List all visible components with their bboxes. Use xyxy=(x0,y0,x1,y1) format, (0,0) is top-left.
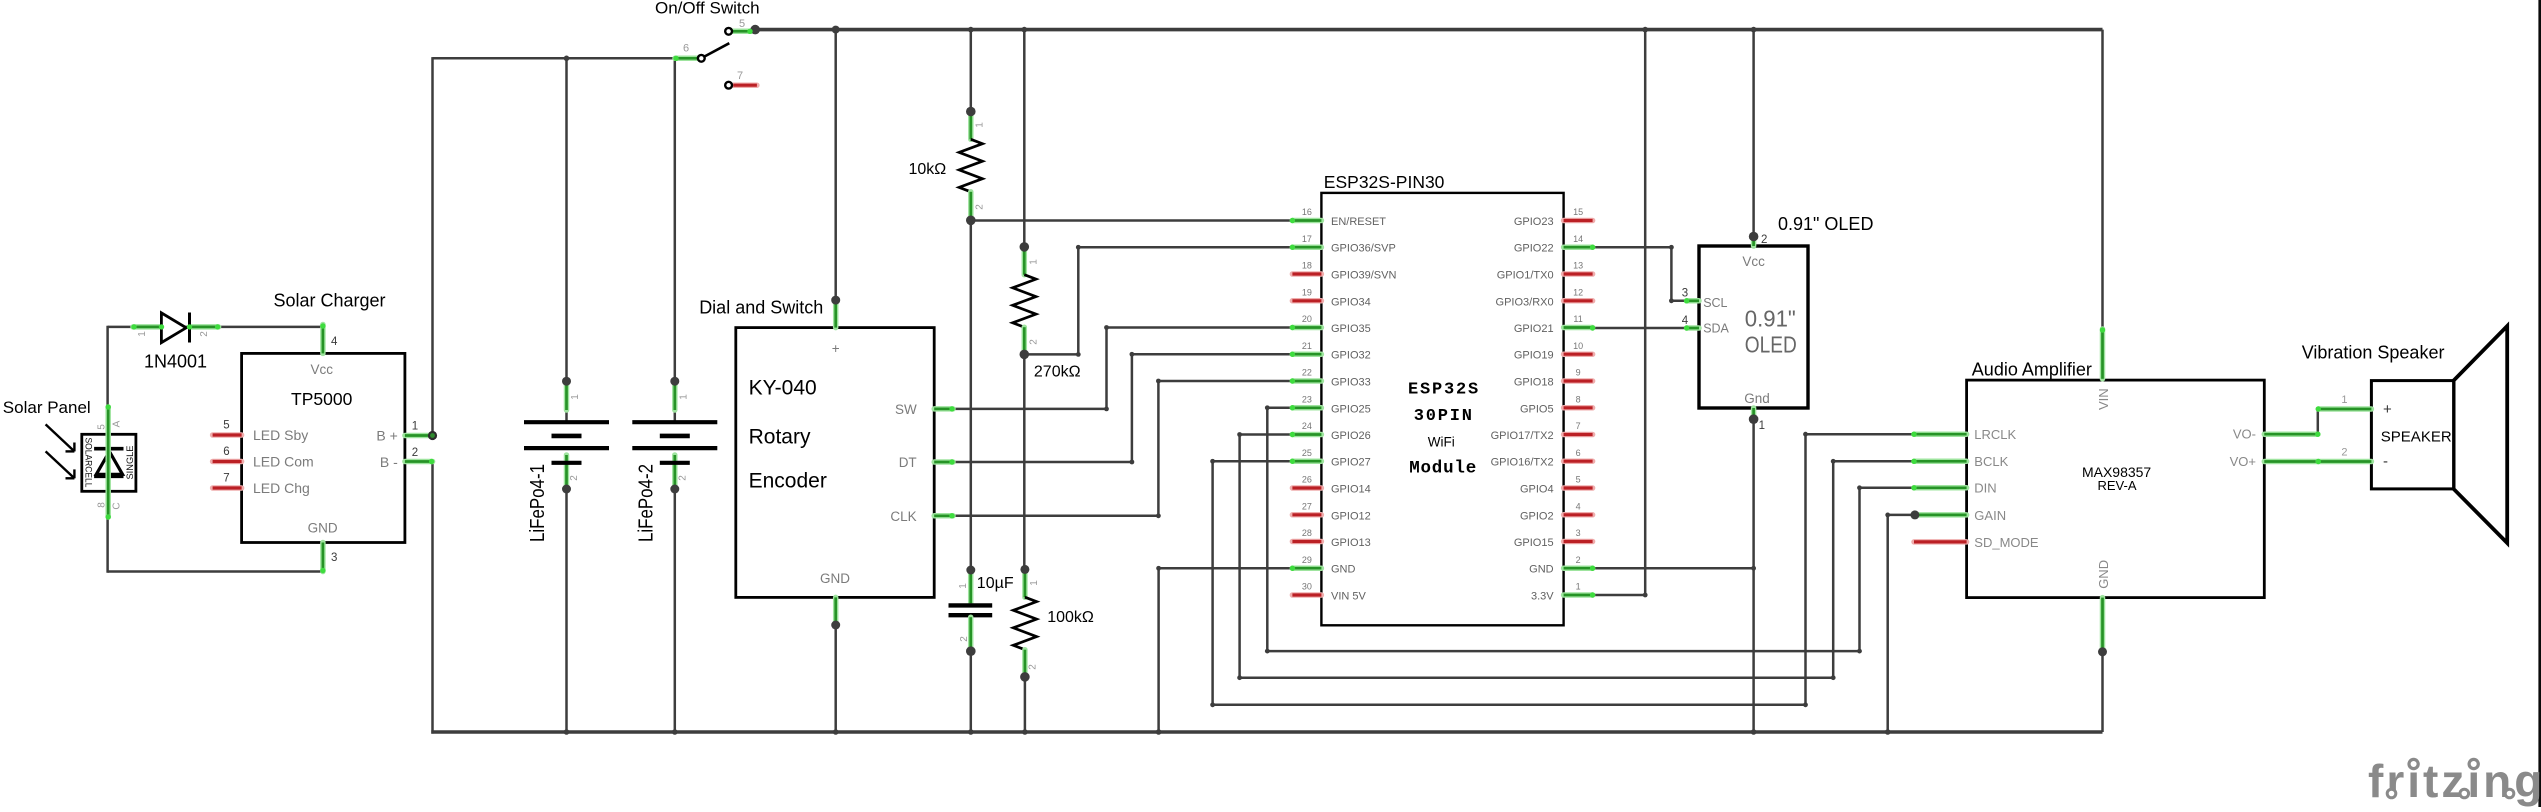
wire R 100k to bus xyxy=(1024,677,1027,734)
switch S1 pin5 terminal xyxy=(725,28,732,35)
svg-text:VO+: VO+ xyxy=(2230,454,2256,469)
ESP32 pin 3 stub xyxy=(1564,539,1593,545)
svg-text:1: 1 xyxy=(2341,394,2347,406)
TP5000 pin7 stub xyxy=(213,485,242,491)
wire bend xyxy=(1076,245,1081,250)
bus junction xyxy=(1156,729,1162,735)
svg-text:25: 25 xyxy=(1302,448,1312,458)
svg-text:Rotary: Rotary xyxy=(749,426,811,449)
wire bend xyxy=(1669,245,1674,250)
svg-text:100kΩ: 100kΩ xyxy=(1047,609,1094,626)
svg-text:27: 27 xyxy=(1302,502,1312,512)
solar cell pin stub xyxy=(105,407,111,517)
capacitor C1 pin1 stub xyxy=(968,570,974,603)
ESP32 pin 17 stub xyxy=(1292,244,1321,250)
svg-text:23: 23 xyxy=(1302,395,1312,405)
module ESP32S-PIN30 body xyxy=(1321,193,1563,625)
module OLED body xyxy=(1699,246,1808,408)
wire VO+ to speaker pin2 xyxy=(2318,460,2350,463)
svg-text:Audio Amplifier: Audio Amplifier xyxy=(1972,359,2092,379)
bus junction xyxy=(1885,729,1891,735)
svg-text:LED Chg: LED Chg xyxy=(253,480,310,496)
node R 10k pin2 xyxy=(966,216,976,226)
svg-text:7: 7 xyxy=(223,473,229,485)
wire CLK to GPIO33 xyxy=(953,381,1292,516)
svg-text:16: 16 xyxy=(1302,207,1312,217)
amp pin BCLK stub xyxy=(1914,459,1967,465)
ESP32 pin 23 stub xyxy=(1292,405,1321,411)
svg-text:1: 1 xyxy=(1576,582,1581,592)
svg-text:GPIO26: GPIO26 xyxy=(1331,430,1371,442)
switch S1 pin5 stub xyxy=(733,29,751,35)
svg-text:2: 2 xyxy=(199,331,210,337)
svg-text:10kΩ: 10kΩ xyxy=(909,161,947,178)
svg-text:VIN 5V: VIN 5V xyxy=(1331,591,1367,603)
svg-text:17: 17 xyxy=(1302,234,1312,244)
wire ESP32 GND pin29 to bus xyxy=(1159,568,1293,733)
svg-text:SW: SW xyxy=(895,402,917,417)
battery LiFePo4-1 pin stubs xyxy=(564,381,570,410)
svg-text:OLED: OLED xyxy=(1745,332,1797,358)
svg-text:GND: GND xyxy=(820,571,850,586)
svg-text:7: 7 xyxy=(1576,421,1581,431)
wire solar panel cathode to TP5000 GND pin3 xyxy=(108,570,323,573)
wire ESP32 GND pin2 to OLED gnd net xyxy=(1593,567,1754,570)
svg-text:GPIO39/SVN: GPIO39/SVN xyxy=(1331,270,1396,282)
wire 3.3V to top bus xyxy=(1593,30,1646,595)
svg-text:29: 29 xyxy=(1302,555,1312,565)
node C 10uF pin1 xyxy=(966,566,975,575)
svg-text:1: 1 xyxy=(678,394,689,400)
svg-text:2: 2 xyxy=(677,475,688,481)
battery LiFePo4-2 xyxy=(632,420,717,424)
svg-text:8: 8 xyxy=(97,502,108,508)
OLED pin4 SDA stub xyxy=(1687,325,1699,331)
node battery2 pin2 xyxy=(670,485,679,494)
svg-text:+: + xyxy=(832,341,840,356)
svg-text:Vibration Speaker: Vibration Speaker xyxy=(2302,342,2445,362)
node C 10uF pin2 xyxy=(966,646,976,656)
resistor R1 10k body xyxy=(959,139,982,192)
diode D1 cathode bar xyxy=(188,313,191,343)
TP5000 pin5 stub xyxy=(213,432,242,438)
svg-text:GPIO15: GPIO15 xyxy=(1514,537,1554,549)
svg-text:6: 6 xyxy=(223,446,229,458)
wire battery2 top lead xyxy=(674,381,677,421)
svg-text:GPIO36/SVP: GPIO36/SVP xyxy=(1331,243,1396,255)
node R 100k pin2 xyxy=(1020,672,1030,682)
svg-text:On/Off Switch: On/Off Switch xyxy=(655,0,760,18)
node amp GND pin xyxy=(2098,647,2107,656)
svg-text:30: 30 xyxy=(1302,582,1312,592)
svg-text:5: 5 xyxy=(223,420,229,432)
svg-text:19: 19 xyxy=(1302,288,1312,298)
wire C 10uF to bus xyxy=(970,651,973,732)
wire GPIO25 to DIN xyxy=(1267,408,1914,651)
wire R 270k to R 100k xyxy=(1023,354,1026,569)
node battery1 pin2 xyxy=(562,485,571,494)
R1 10k pin1 stub xyxy=(968,112,974,140)
wire bend xyxy=(1156,513,1161,518)
bus junction xyxy=(672,729,678,735)
svg-text:28: 28 xyxy=(1302,528,1312,538)
switch S1 pin6 terminal xyxy=(698,55,705,62)
wire bend xyxy=(1265,405,1270,410)
wire bus to R 270k xyxy=(1023,30,1026,247)
speaker body xyxy=(2371,381,2453,489)
svg-text:GPIO25: GPIO25 xyxy=(1331,403,1371,415)
wire bend xyxy=(1669,298,1674,303)
ESP32 pin 27 stub xyxy=(1292,512,1321,518)
svg-text:GPIO35: GPIO35 xyxy=(1331,323,1371,335)
ESP32 pin 8 stub xyxy=(1564,405,1593,411)
node R 100k pin1 xyxy=(1020,565,1029,574)
speaker horn xyxy=(2454,326,2508,543)
svg-text:Solar Charger: Solar Charger xyxy=(274,291,386,311)
amp pin VO+ stub xyxy=(2264,459,2318,465)
ESP32 pin 16 stub xyxy=(1292,218,1321,224)
wire battery1 positive xyxy=(565,58,568,381)
svg-text:SPEAKER: SPEAKER xyxy=(2381,429,2452,446)
svg-text:Solar Panel: Solar Panel xyxy=(3,398,91,417)
node switch pin5 on bus xyxy=(750,25,760,35)
wire bend xyxy=(1104,407,1109,412)
ESP32 pin 21 stub xyxy=(1292,351,1321,357)
ESP32 pin 24 stub xyxy=(1292,432,1321,438)
TP5000 pin3 stub GND xyxy=(320,543,326,572)
svg-text:SINGLE: SINGLE xyxy=(125,446,136,480)
node KY+ pin xyxy=(831,296,840,305)
svg-text:LiFePo4-1: LiFePo4-1 xyxy=(527,464,549,542)
ESP32 pin 6 stub xyxy=(1564,458,1593,464)
wire bend xyxy=(1265,649,1270,654)
fritzing logo node rings xyxy=(2387,789,2396,798)
svg-text:BCLK: BCLK xyxy=(1974,454,2008,469)
KY-040 GND stub xyxy=(833,597,839,625)
capacitor C1 plates xyxy=(949,603,993,607)
wire bend xyxy=(1237,432,1242,437)
svg-text:SDA: SDA xyxy=(1703,321,1729,335)
ESP32 pin 5 stub xyxy=(1564,485,1593,491)
bus junction xyxy=(1022,27,1028,33)
amp pin DIN stub xyxy=(1914,485,1967,491)
TP5000 pin6 stub xyxy=(213,459,242,465)
R2 270k pin2 stub xyxy=(1022,327,1028,354)
node R 10k pin1 xyxy=(966,107,976,117)
wire bend xyxy=(1237,675,1242,680)
wire bend xyxy=(1156,566,1161,571)
wire bend xyxy=(1104,325,1109,330)
bus junction xyxy=(1751,729,1757,735)
bus junction xyxy=(564,56,570,62)
wire battery1 negative to bus xyxy=(565,489,568,732)
svg-text:6: 6 xyxy=(1576,448,1581,458)
ESP32 pin 25 stub xyxy=(1292,458,1321,464)
wire bottom ground bus xyxy=(431,730,2102,734)
svg-text:1: 1 xyxy=(975,122,986,128)
bus junction xyxy=(1642,27,1648,33)
ESP32 pin 2 stub xyxy=(1564,565,1593,571)
R3 100k pin1 stub xyxy=(1022,569,1028,597)
svg-text:2: 2 xyxy=(1576,555,1581,565)
svg-text:SOLARCELL: SOLARCELL xyxy=(83,438,94,488)
svg-text:LED Sby: LED Sby xyxy=(253,427,308,443)
svg-text:22: 22 xyxy=(1302,368,1312,378)
svg-text:26: 26 xyxy=(1302,475,1312,485)
svg-text:270kΩ: 270kΩ xyxy=(1034,363,1081,380)
KY-040 CLK stub xyxy=(934,513,953,519)
IC TP5000 body xyxy=(242,353,405,542)
ESP32 pin 1 stub xyxy=(1564,592,1593,598)
svg-text:GPIO3/RX0: GPIO3/RX0 xyxy=(1496,296,1554,308)
wire VO- up to speaker + xyxy=(2317,409,2320,434)
svg-text:6: 6 xyxy=(683,43,689,55)
wire bend xyxy=(1130,460,1135,465)
svg-text:4: 4 xyxy=(1576,502,1581,512)
switch S1 lever xyxy=(705,43,730,56)
svg-text:SD_MODE: SD_MODE xyxy=(1974,535,2039,550)
svg-text:30PIN: 30PIN xyxy=(1414,407,1474,426)
wire KY-040 plus drop xyxy=(834,30,837,301)
solar panel arrow 2 xyxy=(46,451,75,478)
svg-text:3.3V: 3.3V xyxy=(1531,591,1554,603)
wire top power bus xyxy=(755,28,2102,32)
svg-text:8: 8 xyxy=(1576,395,1581,405)
svg-text:GPIO21: GPIO21 xyxy=(1514,323,1554,335)
node battery1 pin1 xyxy=(562,377,571,386)
svg-text:1: 1 xyxy=(958,583,969,589)
bus junction xyxy=(833,729,839,735)
svg-text:1N4001: 1N4001 xyxy=(144,351,207,371)
amp pin VIN stub xyxy=(2100,329,2106,379)
svg-text:GND: GND xyxy=(308,521,338,536)
svg-text:DT: DT xyxy=(899,455,917,470)
solar cell internal diode xyxy=(94,447,123,451)
svg-text:GPIO33: GPIO33 xyxy=(1331,377,1371,389)
speaker pin1 stub xyxy=(2318,406,2371,412)
ESP32 pin 30 stub xyxy=(1292,592,1321,598)
ESP32 pin 19 stub xyxy=(1292,298,1321,304)
svg-text:24: 24 xyxy=(1302,421,1312,431)
amp pin VO- stub xyxy=(2264,431,2318,437)
svg-text:LiFePo4-2: LiFePo4-2 xyxy=(636,464,658,542)
wire battery2 bottom lead xyxy=(674,463,677,489)
switch S1 pin6 stub xyxy=(675,56,698,62)
node R 270k pin1 xyxy=(1020,242,1030,252)
wire OLED Gnd to ground bus xyxy=(1752,419,1755,733)
svg-text:2: 2 xyxy=(1761,234,1767,246)
R3 100k pin2 stub xyxy=(1022,650,1028,677)
pin end glows xyxy=(673,56,678,61)
svg-text:GPIO32: GPIO32 xyxy=(1331,350,1371,362)
ESP32 pin 13 stub xyxy=(1564,271,1593,277)
svg-text:GPIO2: GPIO2 xyxy=(1520,510,1554,522)
resistor R2 270k body xyxy=(1013,275,1036,328)
diode D1 stub right xyxy=(190,324,219,330)
screenshot right border bar xyxy=(2538,0,2541,807)
svg-text:TP5000: TP5000 xyxy=(291,389,353,409)
svg-text:KY-040: KY-040 xyxy=(749,376,817,399)
wire GPIO21 to SDA xyxy=(1593,327,1687,330)
wire bend xyxy=(1831,675,1836,680)
OLED pin2 Vcc stub xyxy=(1751,238,1757,247)
svg-text:LRCLK: LRCLK xyxy=(1974,427,2016,442)
solar cell body xyxy=(82,434,136,491)
wire bend xyxy=(1885,513,1890,518)
wire DT to GPIO32 xyxy=(953,354,1292,462)
wire solar panel left vertical xyxy=(106,326,109,573)
svg-text:ESP32S: ESP32S xyxy=(1408,381,1480,400)
svg-text:GPIO16/TX2: GPIO16/TX2 xyxy=(1491,457,1554,469)
ESP32 pin 18 stub xyxy=(1292,271,1321,277)
svg-text:Dial and Switch: Dial and Switch xyxy=(699,298,823,318)
node GAIN pin xyxy=(1910,510,1919,519)
svg-text:1: 1 xyxy=(412,421,418,433)
ESP32 pin 28 stub xyxy=(1292,539,1321,545)
wire bend xyxy=(1076,352,1081,357)
KY-040 SW stub xyxy=(934,406,953,412)
R2 270k pin1 stub xyxy=(1022,247,1028,275)
bus junction xyxy=(968,27,974,33)
ESP32 pin 7 stub xyxy=(1564,432,1593,438)
svg-text:-: - xyxy=(2383,453,2388,470)
node battery2 pin1 xyxy=(670,377,679,386)
module MAX98357 body xyxy=(1967,380,2265,597)
bus junction xyxy=(1751,27,1757,33)
wire SW to GPIO35 xyxy=(953,328,1292,409)
diode D1 triangle xyxy=(161,313,186,343)
svg-text:10µF: 10µF xyxy=(977,575,1014,592)
wire battery1 top lead xyxy=(565,381,568,421)
svg-text:GND: GND xyxy=(1331,564,1356,576)
svg-text:Module: Module xyxy=(1409,459,1477,479)
wire GPIO27 to LRCLK xyxy=(1213,434,1914,705)
svg-text:GPIO5: GPIO5 xyxy=(1520,403,1554,415)
svg-text:WiFi: WiFi xyxy=(1428,434,1455,449)
svg-text:GPIO13: GPIO13 xyxy=(1331,537,1371,549)
wire solar panel anode to TP5000 Vcc xyxy=(108,326,323,329)
wire GPIO22 to SCL xyxy=(1593,247,1687,301)
ESP32 pin 11 stub xyxy=(1564,325,1593,331)
bus junction xyxy=(968,729,974,735)
svg-text:2: 2 xyxy=(975,204,986,210)
ESP32 pin 14 stub xyxy=(1564,244,1593,250)
svg-text:2: 2 xyxy=(412,447,418,459)
svg-text:Gnd: Gnd xyxy=(1744,391,1770,406)
svg-text:VIN: VIN xyxy=(2096,388,2111,410)
wire bend xyxy=(1210,702,1215,707)
svg-text:GPIO34: GPIO34 xyxy=(1331,296,1371,308)
svg-text:18: 18 xyxy=(1302,261,1312,271)
switch S1 pin7 terminal xyxy=(725,82,732,89)
svg-text:GPIO19: GPIO19 xyxy=(1514,350,1554,362)
bus junction xyxy=(1022,729,1028,735)
svg-text:EN/RESET: EN/RESET xyxy=(1331,216,1386,228)
OLED pin3 SCL stub xyxy=(1687,298,1699,304)
svg-text:GND: GND xyxy=(2096,560,2111,589)
svg-text:fritzing: fritzing xyxy=(2368,755,2541,807)
svg-text:GPIO12: GPIO12 xyxy=(1331,510,1371,522)
svg-text:9: 9 xyxy=(1576,368,1581,378)
amp pin GAIN stub xyxy=(1914,512,1967,518)
amp pin GND stub xyxy=(2100,598,2106,651)
R1 10k pin2 stub xyxy=(968,192,974,219)
svg-text:GPIO23: GPIO23 xyxy=(1514,216,1554,228)
svg-text:REV-A: REV-A xyxy=(2097,478,2136,493)
svg-text:11: 11 xyxy=(1573,314,1582,324)
wire bend xyxy=(1643,593,1648,598)
wire bus to R 10k xyxy=(970,30,973,112)
ESP32 pin 4 stub xyxy=(1564,512,1593,518)
ESP32 pin 12 stub xyxy=(1564,298,1593,304)
wire KY-040 GND to bus xyxy=(834,625,837,732)
wire battery2 negative to bus xyxy=(674,489,677,732)
svg-text:15: 15 xyxy=(1573,207,1583,217)
svg-text:ESP32S-PIN30: ESP32S-PIN30 xyxy=(1324,172,1445,192)
wire switch pin6 horizontal xyxy=(433,57,677,60)
svg-text:+: + xyxy=(2383,401,2392,418)
svg-text:2: 2 xyxy=(569,475,580,481)
svg-text:GPIO17/TX2: GPIO17/TX2 xyxy=(1491,430,1554,442)
svg-text:GPIO14: GPIO14 xyxy=(1331,484,1371,496)
svg-text:13: 13 xyxy=(1573,261,1583,271)
svg-text:0.91": 0.91" xyxy=(1745,305,1796,331)
svg-text:1: 1 xyxy=(1029,580,1040,586)
wire GAIN to ground bus xyxy=(1888,515,1915,734)
svg-text:2: 2 xyxy=(2341,447,2347,459)
capacitor C1 pin2 stub xyxy=(968,617,974,651)
wire battery2 positive xyxy=(674,58,677,381)
ESP32 pin 29 stub xyxy=(1292,565,1321,571)
wire GPIO26 to BCLK xyxy=(1240,435,1914,678)
wire VIN drop to audio amplifier xyxy=(2101,30,2104,329)
svg-text:B -: B - xyxy=(380,454,398,470)
svg-text:SCL: SCL xyxy=(1703,296,1727,310)
KY-040 DT stub xyxy=(934,459,953,465)
node OLED Vcc pin xyxy=(1749,232,1759,242)
wire amp GND to bus xyxy=(2101,652,2104,732)
svg-text:2: 2 xyxy=(959,636,970,642)
svg-text:GPIO18: GPIO18 xyxy=(1514,377,1554,389)
speaker pin2 stub xyxy=(2318,459,2371,465)
wire bend xyxy=(1857,485,1862,490)
OLED pin1 Gnd stub xyxy=(1751,408,1757,418)
wire bend xyxy=(1210,459,1215,464)
svg-text:DIN: DIN xyxy=(1974,481,1996,496)
wire B- vertical to ground bus xyxy=(431,462,434,734)
switch S1 pin7 stub xyxy=(733,82,757,88)
svg-text:Encoder: Encoder xyxy=(749,470,827,493)
wire battery1 bottom lead xyxy=(565,463,568,489)
svg-text:C: C xyxy=(112,502,123,509)
svg-text:10: 10 xyxy=(1573,341,1583,351)
svg-text:12: 12 xyxy=(1573,288,1583,298)
svg-text:5: 5 xyxy=(739,18,745,30)
wire bend xyxy=(1751,566,1756,571)
svg-text:LED Com: LED Com xyxy=(253,454,314,470)
amp pin LRCLK stub xyxy=(1914,431,1967,437)
svg-text:CLK: CLK xyxy=(890,509,916,524)
svg-text:Vcc: Vcc xyxy=(310,362,333,377)
svg-text:2: 2 xyxy=(1028,664,1039,670)
node B+ junction xyxy=(428,431,437,440)
svg-text:14: 14 xyxy=(1573,234,1583,244)
wire bend xyxy=(1156,379,1161,384)
svg-text:2: 2 xyxy=(1028,339,1039,345)
wire R 10k to C 10uF xyxy=(970,219,973,570)
svg-text:3: 3 xyxy=(331,552,337,564)
svg-text:20: 20 xyxy=(1302,314,1312,324)
